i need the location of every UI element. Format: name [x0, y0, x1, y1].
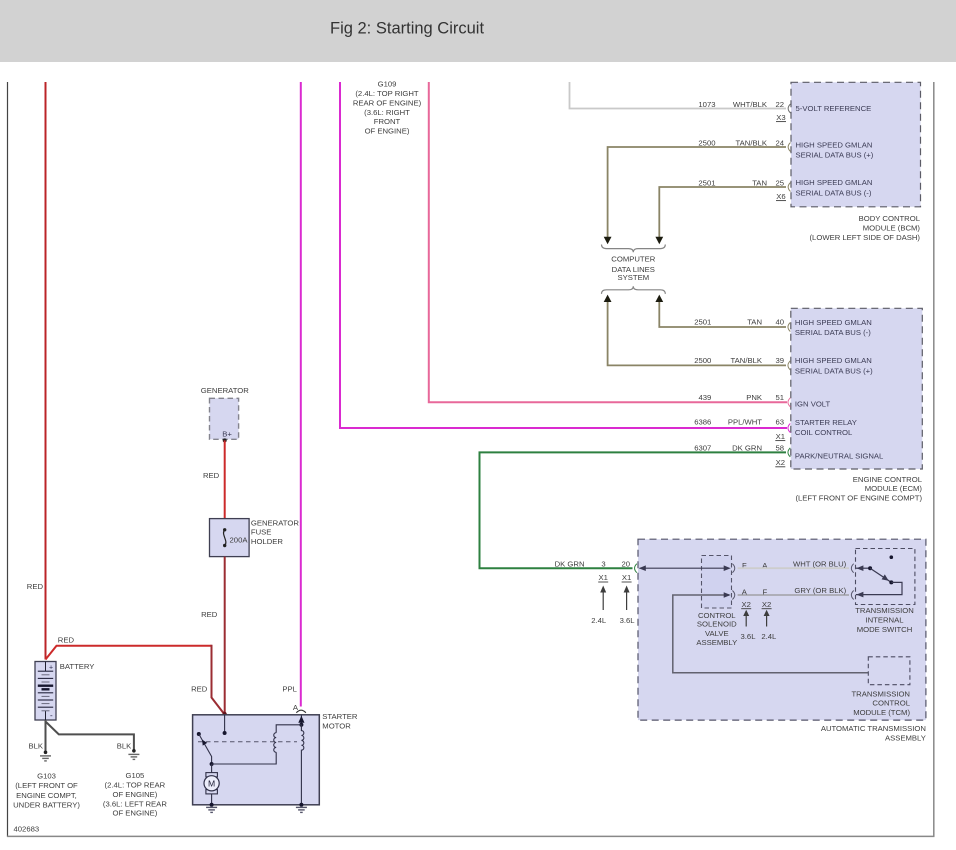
wire RED fuse to starter motor B	[224, 557, 226, 715]
ground under motor	[206, 806, 217, 808]
svg-text:ENGINE CONTROL: ENGINE CONTROL	[853, 475, 923, 484]
component box: generator	[210, 398, 239, 439]
node blade to motor junction	[210, 762, 214, 766]
svg-text:TAN/BLK: TAN/BLK	[736, 138, 768, 147]
svg-text:TRANSMISSION: TRANSMISSION	[851, 689, 910, 698]
svg-text:F: F	[762, 588, 767, 597]
svg-text:B+: B+	[222, 429, 232, 438]
svg-text:PNK: PNK	[746, 393, 763, 402]
wire RED battery positive branch (horizontal)	[46, 646, 212, 660]
svg-text:OF ENGINE): OF ENGINE)	[112, 809, 157, 818]
svg-text:M: M	[208, 779, 215, 789]
node G109 caption	[353, 80, 422, 136]
connector arc right of solenoid row F	[732, 564, 734, 573]
svg-text:22: 22	[775, 100, 784, 109]
wire B terminal stub	[224, 715, 226, 733]
arrow up right	[655, 295, 663, 302]
node switch throw (closed)	[889, 580, 893, 584]
svg-text:(LEFT FRONT OF: (LEFT FRONT OF	[15, 781, 78, 790]
svg-text:HIGH SPEED GMLAN: HIGH SPEED GMLAN	[795, 356, 872, 365]
svg-text:439: 439	[698, 393, 711, 402]
node coil ground junction	[299, 803, 303, 807]
battery plates	[38, 670, 53, 672]
svg-text:MODE SWITCH: MODE SWITCH	[857, 625, 913, 634]
svg-text:BLK: BLK	[117, 741, 132, 750]
svg-text:Fig 2: Starting Circuit: Fig 2: Starting Circuit	[330, 20, 484, 38]
pin 39 connector arc	[788, 361, 790, 370]
svg-text:PPL: PPL	[282, 684, 297, 693]
svg-text:SERIAL DATA BUS (+): SERIAL DATA BUS (+)	[796, 151, 874, 160]
wire TAN 2501 from BCM pin 25 down to data bus	[659, 187, 786, 237]
dashed linkage line	[198, 741, 297, 743]
svg-text:RED: RED	[191, 684, 208, 693]
pin 63 connector arc	[788, 424, 790, 433]
svg-text:GENERATOR: GENERATOR	[201, 386, 249, 395]
switch blade	[870, 568, 891, 582]
wire RED generator to fuse	[224, 440, 226, 518]
svg-text:A: A	[742, 588, 748, 597]
coil L1 (pull-in winding)	[274, 733, 276, 753]
svg-text:MODULE (BCM): MODULE (BCM)	[863, 224, 921, 233]
motor M1 brushes	[206, 773, 218, 777]
node switch throw (open)	[890, 555, 894, 559]
switch blade with arrow	[199, 734, 212, 764]
svg-text:COIL CONTROL: COIL CONTROL	[795, 428, 853, 437]
svg-text:(LOWER LEFT SIDE OF DASH): (LOWER LEFT SIDE OF DASH)	[810, 233, 921, 242]
svg-text:2501: 2501	[698, 178, 715, 187]
pin 24 connector arc	[788, 143, 790, 152]
svg-text:FRONT: FRONT	[374, 117, 401, 126]
svg-text:6386: 6386	[694, 417, 711, 426]
svg-text:REAR OF ENGINE): REAR OF ENGINE)	[353, 98, 422, 107]
wire BLK battery negative to G105	[46, 722, 134, 751]
svg-text:G109: G109	[378, 80, 397, 89]
svg-text:AUTOMATIC TRANSMISSION: AUTOMATIC TRANSMISSION	[821, 724, 926, 733]
connector arc at starter A terminal	[296, 710, 306, 713]
svg-text:WHT (OR BLU): WHT (OR BLU)	[793, 559, 847, 568]
component box: transmission control module (TCM)	[868, 657, 910, 685]
svg-text:ASSEMBLY: ASSEMBLY	[885, 733, 926, 742]
ground G103	[44, 751, 48, 755]
arrow down right	[655, 237, 663, 244]
switch pivot node	[197, 732, 201, 736]
svg-text:200A: 200A	[230, 536, 249, 545]
wire TAN 2501 from data bus to ECM pin 40	[659, 302, 786, 327]
svg-text:20: 20	[622, 560, 631, 569]
svg-text:X2: X2	[776, 458, 785, 467]
svg-text:ASSEMBLY: ASSEMBLY	[696, 638, 737, 647]
svg-text:2.4L: 2.4L	[761, 632, 777, 641]
svg-text:BODY CONTROL: BODY CONTROL	[859, 214, 921, 223]
wire BLK battery negative to G103	[45, 720, 47, 752]
svg-text:2500: 2500	[694, 356, 711, 365]
motor M1	[204, 776, 219, 791]
svg-text:X1: X1	[598, 573, 607, 582]
svg-text:39: 39	[775, 356, 784, 365]
svg-text:(3.6L: LEFT REAR: (3.6L: LEFT REAR	[103, 799, 167, 808]
wire motor to ground	[211, 794, 213, 805]
svg-text:MODULE (TCM): MODULE (TCM)	[853, 708, 910, 717]
svg-text:6307: 6307	[694, 443, 711, 452]
svg-text:1073: 1073	[698, 100, 715, 109]
wire WHT (OR BLU)	[738, 567, 849, 569]
svg-text:COMPUTER: COMPUTER	[611, 254, 655, 263]
svg-text:402683: 402683	[14, 825, 40, 834]
wire switch to motor	[211, 764, 213, 773]
connector arc at assembly edge (green wire)	[635, 564, 637, 573]
component box: transmission internal mode switch U2	[856, 549, 915, 605]
wire WHT/BLK 1073 to BCM pin 22	[570, 82, 787, 109]
connector arc at TIMS row 1	[851, 564, 853, 573]
svg-text:OF ENGINE): OF ENGINE)	[365, 127, 410, 136]
svg-text:RED: RED	[27, 582, 44, 591]
svg-text:HIGH SPEED GMLAN: HIGH SPEED GMLAN	[796, 140, 873, 149]
svg-text:RED: RED	[203, 471, 220, 480]
svg-text:TAN/BLK: TAN/BLK	[731, 356, 763, 365]
svg-text:PPL/WHT: PPL/WHT	[728, 417, 762, 426]
arrow up 3.6L	[626, 591, 628, 610]
svg-text:X6: X6	[776, 192, 785, 201]
svg-text:HOLDER: HOLDER	[251, 537, 283, 546]
arrow up X2 3.6L	[745, 614, 747, 627]
svg-text:ENGINE COMPT,: ENGINE COMPT,	[16, 791, 77, 800]
switch return wire to row 2	[856, 582, 902, 594]
svg-text:STARTER RELAY: STARTER RELAY	[795, 418, 857, 427]
svg-text:3.6L: 3.6L	[620, 616, 636, 625]
svg-text:X2: X2	[741, 600, 750, 609]
svg-text:51: 51	[775, 393, 784, 402]
svg-text:FUSE: FUSE	[251, 528, 272, 537]
svg-text:X1: X1	[622, 573, 631, 582]
svg-text:2500: 2500	[698, 138, 715, 147]
ground under coil	[296, 806, 307, 808]
svg-text:UNDER BATTERY): UNDER BATTERY)	[13, 801, 80, 810]
svg-text:TAN: TAN	[752, 178, 767, 187]
svg-text:PARK/NEUTRAL SIGNAL: PARK/NEUTRAL SIGNAL	[795, 451, 884, 460]
svg-text:3: 3	[601, 560, 605, 569]
svg-text:3.6L: 3.6L	[741, 632, 757, 641]
wire coil top to A node	[276, 725, 301, 733]
svg-text:(3.6L: RIGHT: (3.6L: RIGHT	[364, 108, 410, 117]
assembly box: AUTOMATIC TRANSMISSION ASSEMBLY	[638, 539, 926, 720]
svg-text:HIGH SPEED GMLAN: HIGH SPEED GMLAN	[796, 178, 873, 187]
svg-text:RED: RED	[58, 636, 75, 645]
wire TAN/BLK 2500 from data bus to ECM pin 39	[608, 302, 786, 365]
svg-text:(2.4L: TOP REAR: (2.4L: TOP REAR	[105, 781, 166, 790]
svg-text:X3: X3	[776, 113, 785, 122]
arrow down left	[604, 237, 612, 244]
header bar	[0, 0, 956, 62]
wire junction to hold-in coil	[212, 752, 277, 764]
svg-text:40: 40	[775, 318, 784, 327]
node motor ground junction	[210, 803, 214, 807]
component box: starter motor	[193, 715, 320, 805]
pin 40 connector arc	[788, 323, 790, 332]
svg-text:G103: G103	[37, 771, 56, 780]
wire RED battery feed vertical	[45, 82, 47, 660]
wire DK GRN 6307 from ECM pin 58 to transmission	[480, 452, 787, 568]
wire A terminal with up arrow	[300, 715, 302, 725]
svg-text:STARTER: STARTER	[322, 712, 358, 721]
ground G105	[132, 749, 136, 753]
wire RED branch down to starter B terminal	[211, 646, 225, 715]
svg-text:IGN VOLT: IGN VOLT	[795, 400, 831, 409]
svg-text:GENERATOR: GENERATOR	[251, 518, 299, 527]
connector arc right of solenoid row A	[732, 591, 734, 600]
svg-text:G105: G105	[125, 771, 144, 780]
battery BT1	[35, 662, 56, 721]
svg-text:VALVE: VALVE	[705, 629, 729, 638]
frame right border	[933, 82, 935, 836]
svg-text:MOTOR: MOTOR	[322, 722, 351, 731]
svg-text:24: 24	[775, 138, 784, 147]
pin 25 connector arc	[788, 183, 790, 192]
frame bottom border	[7, 835, 935, 837]
svg-text:+: +	[49, 664, 53, 671]
arrow up left	[604, 295, 612, 302]
svg-text:OF ENGINE): OF ENGINE)	[112, 790, 157, 799]
node generator output	[223, 438, 227, 442]
fuse F1 200A	[223, 528, 226, 531]
pin 22 connector arc	[788, 104, 790, 113]
svg-text:TAN: TAN	[747, 318, 762, 327]
svg-text:(LEFT FRONT OF ENGINE COMPT): (LEFT FRONT OF ENGINE COMPT)	[795, 494, 922, 503]
svg-text:-: -	[50, 711, 53, 720]
switch contact wire row 1	[856, 567, 870, 569]
arrow up 2.4L	[602, 591, 604, 610]
svg-text:2.4L: 2.4L	[591, 616, 607, 625]
pin 51 connector arc	[788, 398, 790, 407]
svg-text:SERIAL DATA BUS (-): SERIAL DATA BUS (-)	[796, 188, 872, 197]
wire PNK 439 to ECM pin 51	[429, 82, 787, 402]
svg-text:TRANSMISSION: TRANSMISSION	[855, 606, 914, 615]
node switch pole	[868, 566, 872, 570]
svg-text:DK GRN: DK GRN	[555, 560, 585, 569]
component box: control solenoid valve assembly	[702, 556, 732, 609]
svg-text:HIGH SPEED GMLAN: HIGH SPEED GMLAN	[795, 318, 872, 327]
wire from TCM up into solenoid row A	[673, 595, 869, 673]
node junction at starter B feed	[222, 712, 226, 716]
svg-text:GRY (OR BLK): GRY (OR BLK)	[794, 586, 846, 595]
svg-text:BLK: BLK	[28, 741, 43, 750]
wire GRY (OR BLK)	[738, 594, 849, 596]
svg-text:2501: 2501	[694, 318, 711, 327]
svg-text:SYSTEM: SYSTEM	[617, 273, 649, 282]
wire internal row F with double arrows	[640, 567, 730, 569]
svg-text:X2: X2	[762, 600, 771, 609]
frame left border	[7, 82, 9, 836]
svg-text:58: 58	[775, 443, 784, 452]
coil L2 (motor winding)	[301, 725, 303, 805]
wire TAN/BLK 2500 from BCM pin 24 down to data bus	[608, 147, 786, 237]
brace lower	[602, 286, 666, 294]
wire PPL/WHT 6386 to ECM pin 63	[340, 82, 787, 428]
module box: ENGINE CONTROL MODULE (ECM)	[791, 308, 923, 469]
svg-text:63: 63	[775, 417, 784, 426]
svg-text:DK GRN: DK GRN	[732, 443, 762, 452]
svg-text:(2.4L: TOP RIGHT: (2.4L: TOP RIGHT	[355, 89, 419, 98]
wire PPL starter solenoid vertical	[300, 82, 302, 707]
pin 58 connector arc	[788, 448, 790, 457]
svg-text:5-VOLT REFERENCE: 5-VOLT REFERENCE	[796, 104, 872, 113]
node A junction	[299, 723, 303, 727]
connector arc at TIMS row 2	[851, 591, 853, 600]
svg-text:25: 25	[775, 178, 784, 187]
svg-text:SERIAL DATA BUS (-): SERIAL DATA BUS (-)	[795, 328, 871, 337]
svg-text:SERIAL DATA BUS (+): SERIAL DATA BUS (+)	[795, 366, 873, 375]
component box: generator fuse holder	[210, 519, 250, 557]
brace upper	[602, 245, 666, 253]
op-amp-style module box: BODY CONTROL MODULE (BCM)	[791, 82, 921, 207]
svg-text:CONTROL: CONTROL	[872, 699, 910, 708]
svg-text:MODULE (ECM): MODULE (ECM)	[865, 484, 923, 493]
node B contact	[223, 731, 227, 735]
svg-text:BATTERY: BATTERY	[60, 662, 95, 671]
svg-text:SOLENOID: SOLENOID	[697, 619, 737, 628]
svg-text:INTERNAL: INTERNAL	[865, 615, 904, 624]
arrow up X2 2.4L	[766, 614, 768, 627]
svg-text:WHT/BLK: WHT/BLK	[733, 100, 768, 109]
svg-text:RED: RED	[201, 610, 218, 619]
svg-text:X1: X1	[776, 432, 785, 441]
